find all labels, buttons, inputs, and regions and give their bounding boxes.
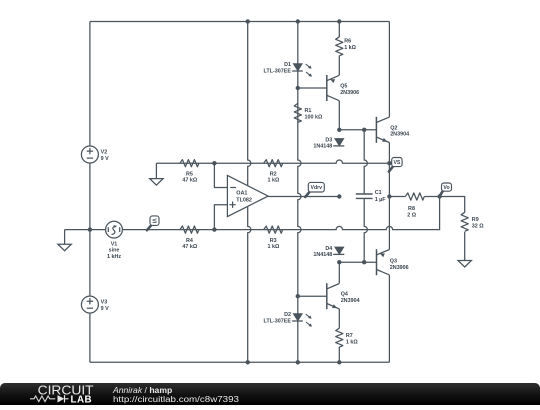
node Vo flag xyxy=(440,191,443,196)
svg-text:9 V: 9 V xyxy=(101,306,109,312)
svg-text:1 kHz: 1 kHz xyxy=(107,254,121,260)
ground (R9) xyxy=(464,232,466,261)
svg-text:OA1: OA1 xyxy=(236,191,247,197)
svg-text:47 kΩ: 47 kΩ xyxy=(182,178,197,184)
wire C1 vertical with hops xyxy=(364,130,367,262)
svg-text:V2: V2 xyxy=(101,149,108,155)
svg-text:R4: R4 xyxy=(186,238,193,244)
wire upper feedback rail y=163 xyxy=(156,160,389,163)
wire bottom -9V rail xyxy=(90,361,390,363)
wire R6 leads xyxy=(338,22,340,76)
junction C1 bottom tap xyxy=(362,260,366,264)
svg-text:2N3906: 2N3906 xyxy=(390,265,409,271)
svg-text:R9: R9 xyxy=(472,217,479,223)
junction left rail / V1 / ground xyxy=(88,227,92,231)
capacitor C1 1uF xyxy=(356,194,373,198)
junction bottom rail / R7 xyxy=(337,360,341,364)
resistor R1 100k xyxy=(294,103,301,122)
wire Q5 collector stub xyxy=(338,101,340,130)
svg-text:R2: R2 xyxy=(270,172,277,178)
wire op-amp output to D3/D4 midpoint xyxy=(268,196,339,198)
svg-text:C1: C1 xyxy=(375,190,382,196)
resistor R6 1k xyxy=(336,37,343,56)
svg-text:LTL-307EE: LTL-307EE xyxy=(264,318,292,324)
svg-text:1 kΩ: 1 kΩ xyxy=(344,45,356,51)
svg-text:V1: V1 xyxy=(111,242,118,248)
junction VS rail end xyxy=(387,161,391,165)
svg-text:VS: VS xyxy=(393,160,400,166)
svg-text:D4: D4 xyxy=(325,246,332,252)
wire Q3 base rail xyxy=(339,261,376,263)
wire Q5 base xyxy=(298,87,327,89)
svg-text:Vdrv: Vdrv xyxy=(311,185,323,191)
svg-text:D3: D3 xyxy=(325,137,332,143)
node VS flag xyxy=(389,166,393,172)
junction D3/D4 midpoint / output xyxy=(337,194,341,198)
svg-text:D2: D2 xyxy=(284,312,291,318)
resistor R9 32ohm xyxy=(461,212,468,231)
svg-text:R7: R7 xyxy=(346,333,353,339)
junction VS vertical / R8 xyxy=(387,194,391,198)
resistor R2 1k xyxy=(264,160,283,167)
svg-text:100 kΩ: 100 kΩ xyxy=(305,114,323,120)
op-amp OA1 TL082 xyxy=(227,175,268,216)
wire inverting input jog xyxy=(214,163,227,187)
junction top rail / D1 anode xyxy=(296,19,300,23)
svg-text:1N4148: 1N4148 xyxy=(313,252,332,258)
CircuitLab logo xyxy=(30,382,94,405)
resistor R3 1k xyxy=(264,226,283,233)
attribution text xyxy=(112,385,239,404)
junction node B (R4/R3/non-inverting input) xyxy=(212,227,216,231)
voltage source V2 9V xyxy=(81,146,98,163)
node Vdrv flag xyxy=(305,191,310,197)
svg-text:Q4: Q4 xyxy=(341,292,348,298)
junction bottom rail / D2 cathode xyxy=(296,360,300,364)
diode D4 1N4148 xyxy=(335,247,344,254)
junction bottom rail / op-amp V- stub xyxy=(246,360,250,364)
svg-text:Q3: Q3 xyxy=(390,259,397,265)
wire VS node to R8 xyxy=(389,196,405,198)
resistor R4 47k xyxy=(180,226,199,233)
svg-text:1 kΩ: 1 kΩ xyxy=(267,244,279,250)
svg-text:Q2: Q2 xyxy=(390,126,397,132)
wire Q3 collector to bottom rail xyxy=(388,275,390,362)
svg-text:TL082: TL082 xyxy=(236,197,252,203)
wire Q4 base xyxy=(298,295,327,297)
svg-text:R5: R5 xyxy=(186,172,193,178)
svg-text:VI: VI xyxy=(151,218,157,223)
svg-text:V3: V3 xyxy=(101,299,108,305)
svg-text:http://circuitlab.com/c8w7393: http://circuitlab.com/c8w7393 xyxy=(113,394,239,404)
wire right vertical Q2 collector to top rail xyxy=(388,22,390,118)
LED D2 LTL-307EE xyxy=(293,314,302,321)
resistor R7 1k xyxy=(336,328,343,347)
transistor Q5 2N3906 (PNP) xyxy=(326,75,328,101)
svg-text:2N3906: 2N3906 xyxy=(340,90,359,96)
svg-text:1 µF: 1 µF xyxy=(375,197,387,203)
svg-text:LTL-307EE: LTL-307EE xyxy=(264,68,292,74)
wire non-inverting input jog xyxy=(214,205,227,230)
junction top rail / R6 xyxy=(337,19,341,23)
svg-text:1N4148: 1N4148 xyxy=(313,144,332,150)
svg-text:R6: R6 xyxy=(344,39,351,45)
svg-text:1 kΩ: 1 kΩ xyxy=(346,339,358,345)
resistor R5 47k xyxy=(180,160,199,167)
wire Q4 emitter to R7 xyxy=(338,309,340,362)
junction D4 cathode / Q4 collector / Q3 base xyxy=(337,260,341,264)
junction D1 cathode / R1 / Q5 base xyxy=(296,86,300,90)
voltage source V3 9V xyxy=(81,296,98,313)
junction node A (R5/R2/inverting input) xyxy=(212,161,216,165)
wire left rail (V2/V3 branch) xyxy=(89,22,91,363)
svg-text:LAB: LAB xyxy=(71,394,93,405)
junction Vo node xyxy=(437,194,441,198)
svg-text:2N3904: 2N3904 xyxy=(341,298,360,304)
svg-text:R3: R3 xyxy=(270,238,277,244)
svg-text:9 V: 9 V xyxy=(101,156,109,162)
svg-text:Q5: Q5 xyxy=(340,84,347,90)
svg-text:2N3904: 2N3904 xyxy=(390,132,409,138)
wire top +9V rail xyxy=(90,21,390,23)
svg-text:32 Ω: 32 Ω xyxy=(472,224,484,230)
junction R1 bottom / D2 anode / Q4 base xyxy=(296,294,300,298)
ground (V1 return) xyxy=(64,230,66,245)
ground (R5) xyxy=(155,163,157,178)
svg-text:R8: R8 xyxy=(408,206,415,212)
wire lower input rail y=229.6 xyxy=(65,197,440,230)
svg-text:2 Ω: 2 Ω xyxy=(407,212,416,218)
wire R8 to Vo corner to R9 xyxy=(424,197,464,213)
wire Q2 emitter to VS to Q3 emitter xyxy=(388,143,390,250)
wire op-amp supply vertical with hops xyxy=(248,22,251,363)
wire Q4 collector stub xyxy=(338,262,340,283)
transistor Q3 2N3906 (PNP) xyxy=(376,249,378,275)
svg-text:R1: R1 xyxy=(305,108,312,114)
svg-text:D1: D1 xyxy=(284,62,291,68)
resistor R8 2ohm xyxy=(405,193,424,200)
junction Q5 collector / D3 / Q2 base xyxy=(337,128,341,132)
transistor Q4 2N3904 (NPN) xyxy=(326,283,328,309)
node VI flag xyxy=(147,225,152,230)
sine source V1 1kHz xyxy=(106,221,123,238)
diode D3 1N4148 xyxy=(335,139,344,146)
wire D1-R1-D2 vertical with hops xyxy=(298,22,301,363)
wire Q2 base rail xyxy=(339,129,376,131)
svg-text:sine: sine xyxy=(109,248,120,254)
transistor Q2 2N3904 (NPN) xyxy=(375,117,377,143)
svg-text:1 kΩ: 1 kΩ xyxy=(267,178,279,184)
junction C1 top tap xyxy=(362,128,366,132)
svg-text:Vo: Vo xyxy=(443,185,449,191)
LED D1 LTL-307EE xyxy=(293,64,302,71)
junction top rail / op-amp V+ stub xyxy=(246,19,250,23)
svg-text:47 kΩ: 47 kΩ xyxy=(182,244,197,250)
